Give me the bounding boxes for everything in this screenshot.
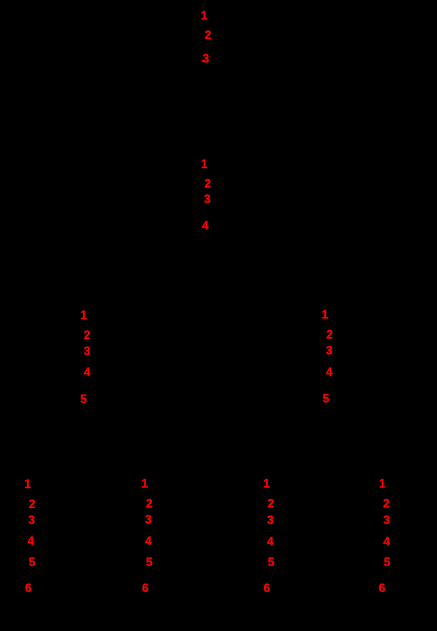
svg-text:1: 1 <box>24 477 31 491</box>
svg-text:5: 5 <box>384 555 391 569</box>
svg-text:5: 5 <box>323 392 330 406</box>
svg-text:4: 4 <box>267 535 274 549</box>
svg-text:6: 6 <box>263 581 270 595</box>
svg-text:2: 2 <box>146 496 153 510</box>
svg-text:6: 6 <box>379 581 386 595</box>
svg-text:2: 2 <box>205 28 212 42</box>
svg-text:4: 4 <box>27 534 34 548</box>
svg-text:2: 2 <box>267 497 274 511</box>
svg-text:1: 1 <box>263 477 270 491</box>
svg-text:1: 1 <box>141 477 148 491</box>
red edge tail fragment near root label 3 <box>202 60 206 63</box>
svg-text:3: 3 <box>383 513 390 527</box>
svg-text:1: 1 <box>80 308 87 322</box>
svg-text:3: 3 <box>204 192 211 206</box>
svg-text:3: 3 <box>84 344 91 358</box>
svg-text:5: 5 <box>146 555 153 569</box>
svg-text:1: 1 <box>201 9 208 23</box>
svg-text:3: 3 <box>28 513 35 527</box>
svg-text:4: 4 <box>145 534 152 548</box>
svg-text:4: 4 <box>202 218 209 232</box>
svg-text:5: 5 <box>29 555 36 569</box>
svg-text:3: 3 <box>326 344 333 358</box>
svg-text:4: 4 <box>326 365 333 379</box>
svg-text:6: 6 <box>25 581 32 595</box>
svg-text:2: 2 <box>204 177 211 191</box>
svg-text:4: 4 <box>84 365 91 379</box>
svg-text:2: 2 <box>383 497 390 511</box>
svg-text:4: 4 <box>383 535 390 549</box>
svg-text:2: 2 <box>84 328 91 342</box>
svg-text:6: 6 <box>142 581 149 595</box>
svg-text:5: 5 <box>80 392 87 406</box>
svg-text:3: 3 <box>145 513 152 527</box>
svg-text:2: 2 <box>326 327 333 341</box>
svg-text:2: 2 <box>29 497 36 511</box>
svg-text:1: 1 <box>201 157 208 171</box>
svg-text:3: 3 <box>203 52 210 66</box>
svg-text:3: 3 <box>267 513 274 527</box>
svg-text:1: 1 <box>379 477 386 491</box>
svg-text:1: 1 <box>322 308 329 322</box>
svg-text:5: 5 <box>268 555 275 569</box>
